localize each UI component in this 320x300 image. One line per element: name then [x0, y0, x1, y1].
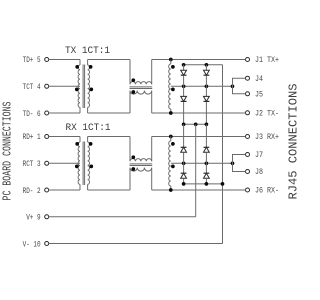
- V- clamp rail TX: [184, 64, 223, 66]
- svg-text:V+ 9: V+ 9: [26, 214, 40, 223]
- T3 polarity dot secondary lower: [89, 165, 93, 169]
- terminal circle J3: [246, 135, 250, 139]
- terminal circle pin 1: [45, 135, 49, 139]
- choke L2 polarity dot top: [131, 155, 135, 159]
- terminal circle pin 10: [45, 242, 49, 246]
- wire choke L1 to J1 TX+: [152, 59, 246, 61]
- choke L2 bottom winding: [130, 168, 152, 171]
- V+ riser wire: [195, 124, 197, 217]
- D4 anode lead: [205, 86, 207, 96]
- coil T2 top lead: [170, 60, 172, 65]
- diode D2 (cathode down): [204, 70, 210, 75]
- D2 cathode lead: [205, 76, 207, 86]
- T1 polarity dot secondary lower: [89, 88, 93, 92]
- D7 anode lead: [183, 178, 185, 184]
- choke L1 top winding: [130, 82, 152, 85]
- terminal circle pin 5: [45, 58, 49, 62]
- wire V+9 line: [49, 216, 196, 218]
- D6 anode lead: [205, 152, 207, 163]
- svg-text:TX 1CT:1: TX 1CT:1: [65, 46, 110, 57]
- T1 secondary bottom lead: [87, 107, 89, 113]
- choke L2 top winding: [130, 159, 152, 162]
- T3 secondary bottom lead: [87, 184, 89, 190]
- wire V-10 line: [49, 243, 223, 245]
- choke L1 core line 1: [130, 86, 153, 88]
- svg-text:RJ45 CONNECTIONS: RJ45 CONNECTIONS: [286, 83, 300, 199]
- T3 polarity dot secondary top: [89, 142, 93, 146]
- T3 core line 2: [84, 142, 86, 186]
- transformer T3 primary winding: [78, 142, 80, 184]
- T1 core line 2: [84, 65, 86, 109]
- autotransformer coil T2: [169, 64, 171, 109]
- bracket wire J7 J8: [233, 155, 246, 172]
- T2 polarity dot top: [171, 65, 175, 69]
- choke L2 right top riser: [151, 137, 153, 162]
- terminal circle J5: [246, 92, 250, 96]
- T3 secondary top lead: [87, 137, 89, 143]
- D1 anode lead: [183, 65, 185, 70]
- D4 cathode lead: [205, 102, 207, 124]
- junction coil T2 bottom: [169, 111, 173, 115]
- choke L2 left bottom riser: [129, 168, 131, 190]
- diode D7 (cathode up): [181, 172, 187, 174]
- wire RCT3 to T3 primary center tap: [49, 162, 80, 164]
- T4 polarity dot top: [171, 142, 175, 146]
- T4 polarity dot lower: [171, 165, 175, 169]
- svg-text:J4: J4: [255, 75, 263, 84]
- svg-text:RD- 2: RD- 2: [23, 187, 41, 196]
- choke L1 polarity dot bottom: [131, 90, 135, 94]
- wire T3 secondary top to choke L2: [88, 136, 130, 138]
- autotransformer coil T4: [169, 141, 171, 186]
- D5 anode lead: [183, 152, 185, 163]
- junction D5 column / rail: [182, 161, 186, 165]
- junction D1 column / center tap rail: [182, 84, 186, 88]
- svg-text:J3 RX+: J3 RX+: [255, 133, 279, 142]
- D8 anode lead: [205, 178, 207, 184]
- V- riser wire: [222, 65, 224, 244]
- choke L1 right bottom riser: [151, 91, 153, 113]
- svg-text:TCT 4: TCT 4: [23, 83, 41, 92]
- wire T2 center tap to J4/J5: [171, 85, 233, 87]
- T1 core line 1: [82, 65, 84, 109]
- T3 primary bottom lead: [79, 184, 81, 190]
- T2 polarity dot lower: [171, 88, 175, 92]
- svg-text:RD+ 1: RD+ 1: [23, 133, 41, 142]
- terminal circle J4: [246, 76, 250, 80]
- T1 polarity dot primary top: [75, 65, 79, 69]
- diode D1 (cathode down): [181, 70, 187, 75]
- transformer T3 secondary winding: [88, 142, 90, 184]
- junction J7/J8 bracket: [231, 161, 235, 165]
- svg-text:PC BOARD CONNECTIONS: PC BOARD CONNECTIONS: [1, 102, 15, 201]
- junction coil T4 bottom: [169, 188, 173, 192]
- T1 primary bottom lead: [79, 107, 81, 113]
- svg-text:V- 10: V- 10: [23, 240, 41, 249]
- wire choke L2 to J6 RX-: [152, 189, 246, 191]
- T3 core line 1: [82, 142, 84, 186]
- T3 polarity dot primary top: [75, 142, 79, 146]
- T3 primary top lead: [79, 137, 81, 143]
- wire T3 secondary bottom to choke L2: [88, 189, 130, 191]
- coil T4 top lead: [170, 137, 172, 142]
- junction coil T4 top: [169, 135, 173, 139]
- terminal circle J7: [246, 153, 250, 157]
- choke L2 polarity dot bottom: [131, 167, 135, 171]
- T1 secondary top lead: [87, 60, 89, 66]
- choke L1 bottom winding: [130, 91, 152, 94]
- junction J4/J5 bracket: [231, 84, 235, 88]
- junction D2 column / center tap rail: [205, 84, 209, 88]
- svg-text:J6 RX-: J6 RX-: [255, 187, 279, 196]
- V+ clamp rail TX: [184, 123, 207, 125]
- D7 cathode lead: [183, 163, 185, 173]
- T3 polarity dot primary lower: [75, 165, 79, 169]
- wire T1 secondary bottom to choke L1: [88, 112, 130, 114]
- svg-text:TD- 6: TD- 6: [23, 110, 41, 119]
- choke L2 core line 1: [130, 163, 153, 165]
- terminal circle J8: [246, 170, 250, 174]
- bracket wire J4 J5: [233, 78, 246, 94]
- junction D6 column / rail: [205, 161, 209, 165]
- T1 polarity dot primary lower: [75, 88, 79, 92]
- D6 cathode lead (to V+ rail): [205, 124, 207, 147]
- choke L2 core line 2: [130, 165, 153, 167]
- junction V+ rail/D3: [182, 122, 186, 126]
- wire T1 secondary top to choke L1: [88, 59, 130, 61]
- terminal circle pin 2: [45, 188, 49, 192]
- choke L2 left top riser: [129, 137, 131, 162]
- choke L1 core line 2: [130, 88, 153, 90]
- D5 cathode lead (to V+ rail): [183, 124, 185, 147]
- coil T4 bottom lead: [170, 186, 172, 190]
- junction rail/D7: [182, 182, 186, 186]
- choke L1 left top riser: [129, 60, 131, 85]
- D1 cathode lead: [183, 76, 185, 86]
- diode D3 (cathode down): [181, 96, 187, 101]
- svg-text:RCT 3: RCT 3: [23, 160, 41, 169]
- svg-text:J1 TX+: J1 TX+: [255, 56, 279, 65]
- junction V+ rail/D4: [205, 122, 209, 126]
- diode D6 (cathode up): [204, 146, 210, 148]
- svg-text:J8: J8: [255, 168, 263, 177]
- diode D4 (cathode down): [204, 96, 210, 101]
- T1 primary top lead: [79, 60, 81, 66]
- wire TD-6 to T1 primary bottom: [49, 112, 80, 114]
- terminal circle pin 3: [45, 161, 49, 165]
- wire choke L1 to J2 TX-: [152, 112, 246, 114]
- diode D8 (cathode up): [204, 172, 210, 174]
- transformer T1 secondary winding: [88, 65, 90, 107]
- svg-text:J5: J5: [255, 90, 263, 99]
- wire TD+5 to T1 primary top: [49, 59, 80, 61]
- diode D5 (cathode up): [181, 146, 187, 148]
- wire RD-2 to T3 primary bottom: [49, 189, 80, 191]
- D8 cathode lead: [205, 163, 207, 173]
- choke L1 right top riser: [151, 60, 153, 85]
- T1 polarity dot secondary top: [89, 65, 93, 69]
- terminal circle J1: [246, 58, 250, 62]
- junction coil T2 top: [169, 58, 173, 62]
- junction rail/D1: [182, 63, 186, 67]
- junction V+ rail/riser: [194, 122, 198, 126]
- coil T2 bottom lead: [170, 109, 172, 113]
- D3 cathode lead: [183, 102, 185, 124]
- svg-text:J7: J7: [255, 151, 263, 160]
- svg-text:J2 TX-: J2 TX-: [255, 109, 279, 118]
- terminal circle J6: [246, 188, 250, 192]
- terminal circle J2: [246, 111, 250, 115]
- wire RD+1 to T3 primary top: [49, 136, 80, 138]
- terminal circle pin 9: [45, 215, 49, 219]
- V- clamp rail RX: [184, 183, 223, 185]
- junction rail/V- riser: [221, 182, 225, 186]
- wire T4 center tap to J7/J8: [171, 162, 233, 164]
- choke L1 left bottom riser: [129, 91, 131, 113]
- terminal circle pin 6: [45, 111, 49, 115]
- D2 anode lead: [205, 65, 207, 70]
- choke L2 right bottom riser: [151, 168, 153, 190]
- choke L1 polarity dot top: [131, 78, 135, 82]
- junction rail/D2: [205, 63, 209, 67]
- svg-text:RX 1CT:1: RX 1CT:1: [66, 123, 111, 134]
- terminal circle pin 4: [45, 84, 49, 88]
- transformer T1 primary winding: [78, 65, 80, 107]
- wire TCT4 to T1 primary center tap: [49, 85, 80, 87]
- D3 anode lead: [183, 86, 185, 96]
- wire choke L2 to J3 RX+: [152, 136, 246, 138]
- svg-text:TD+ 5: TD+ 5: [23, 56, 41, 65]
- junction rail/D8: [205, 182, 209, 186]
